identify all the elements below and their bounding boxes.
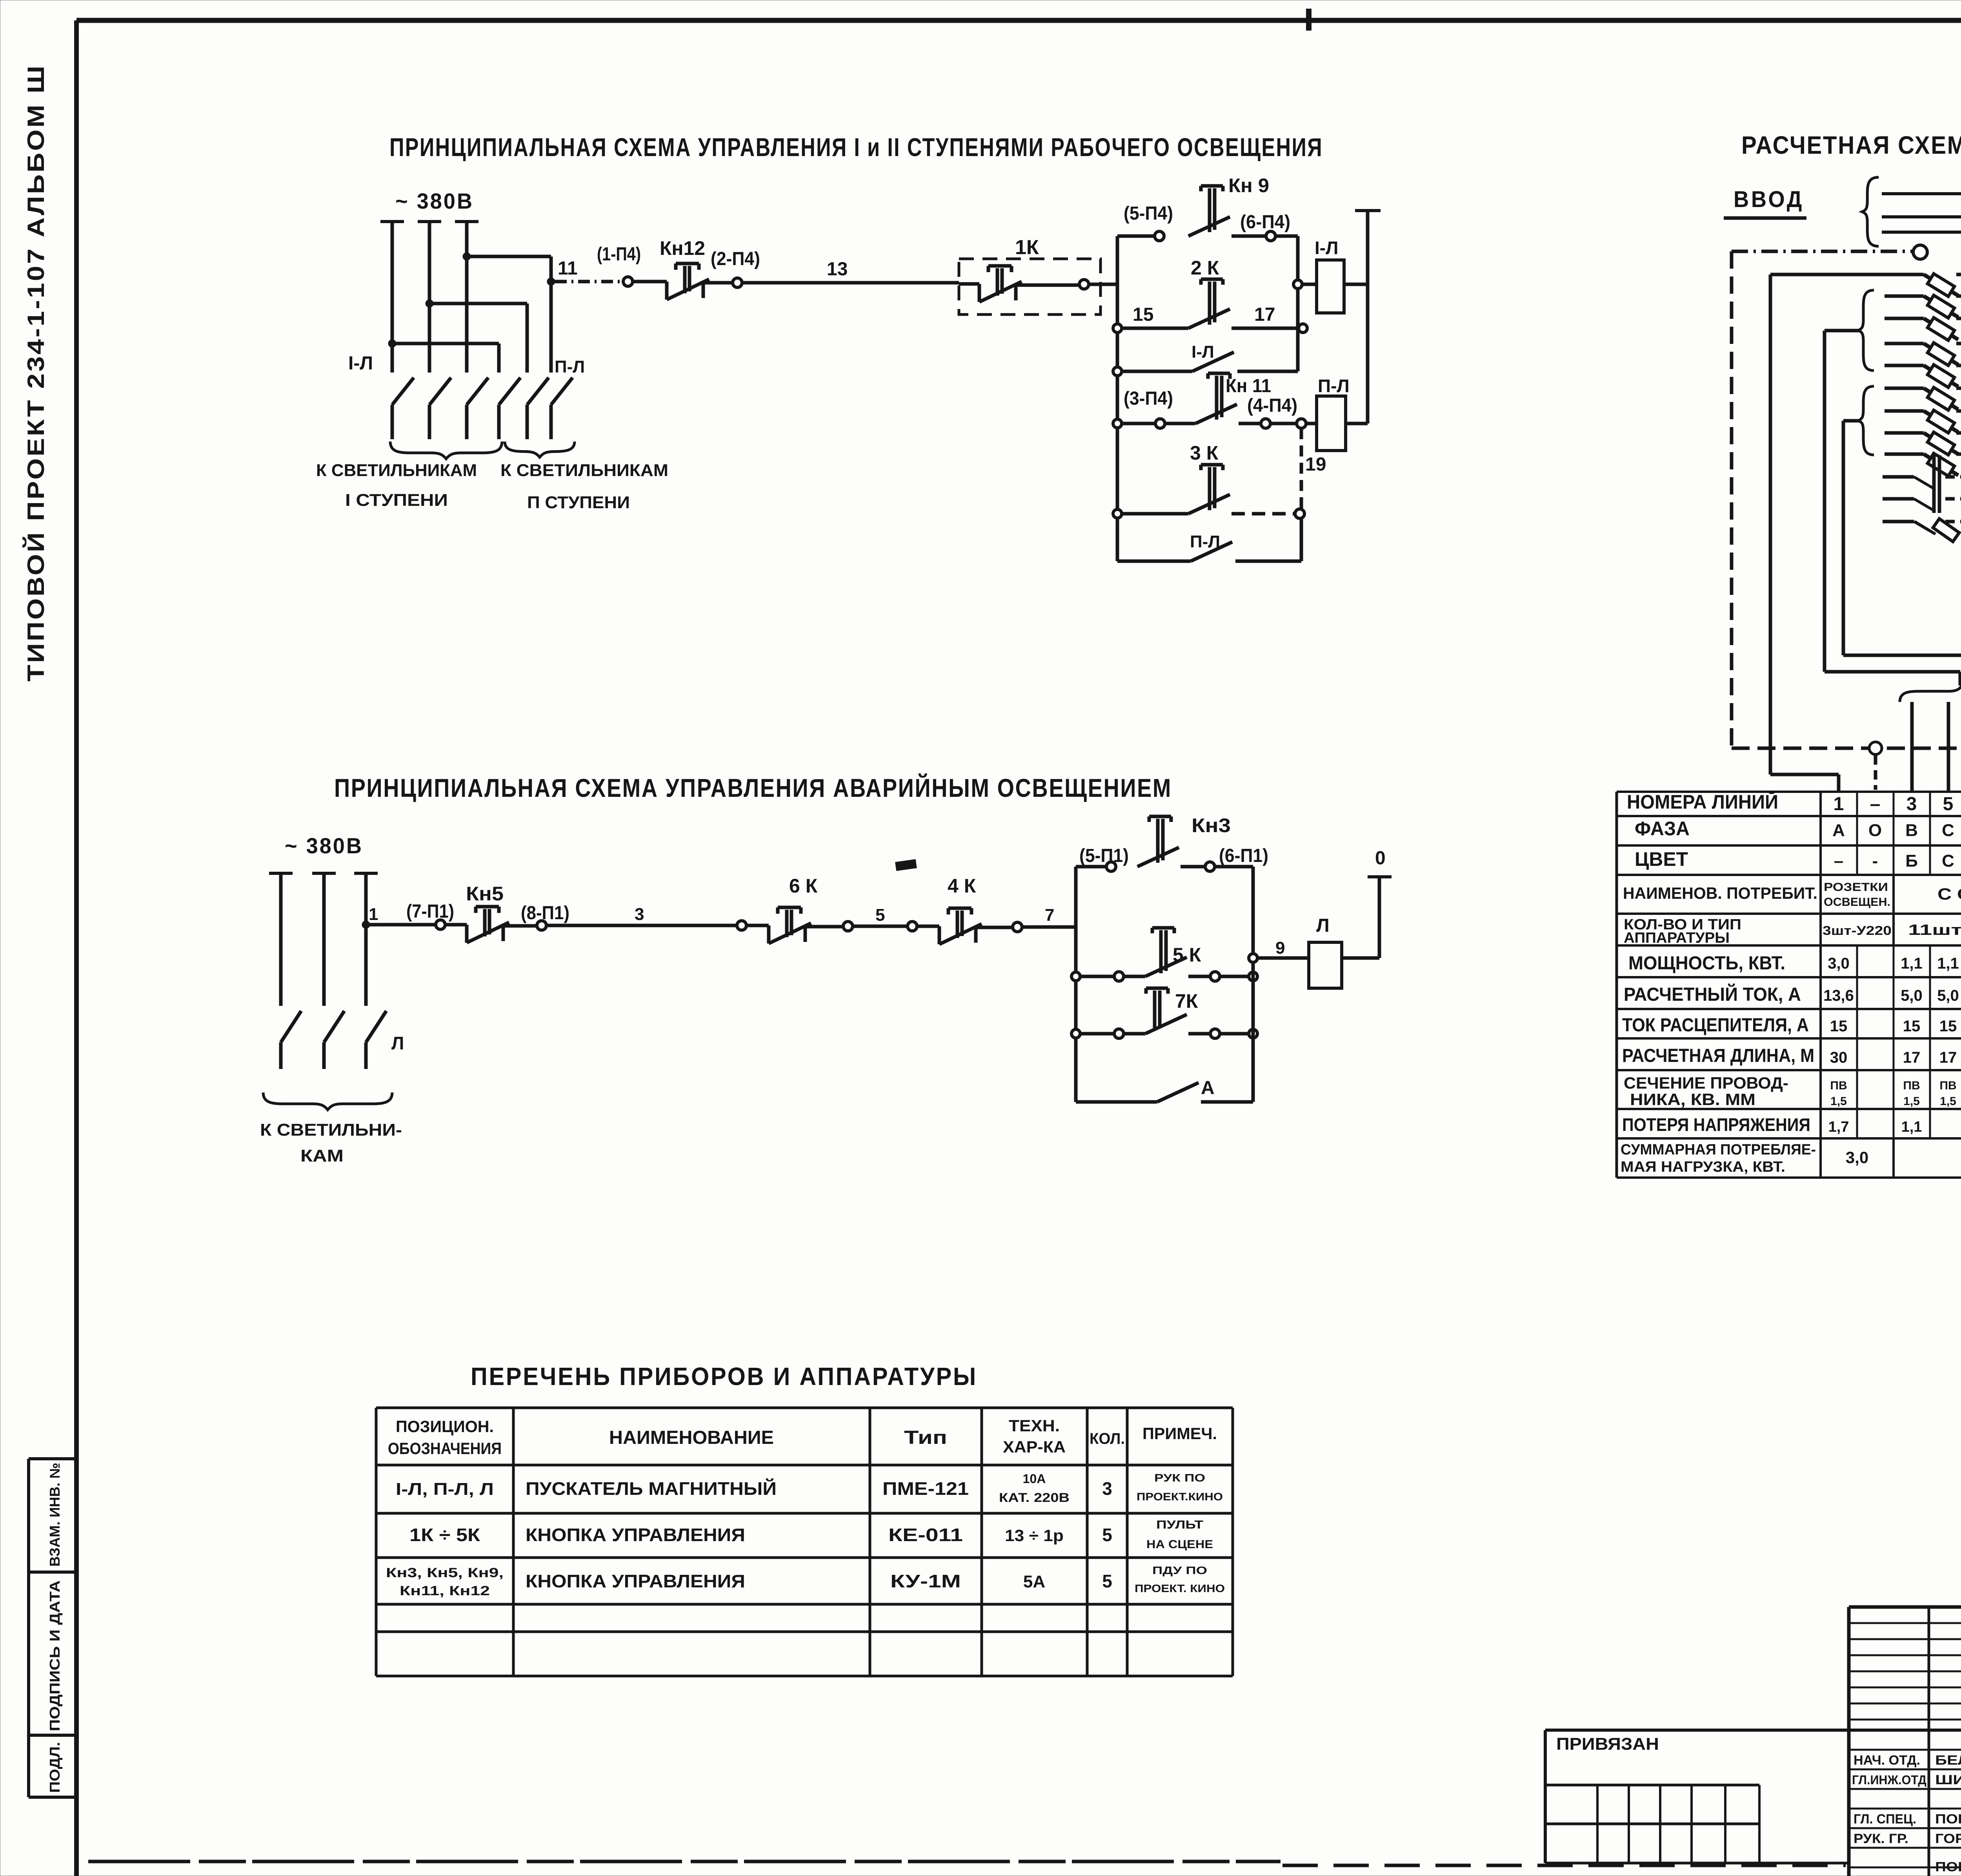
contactor main contact pole 1	[392, 378, 414, 439]
terminal circle after 6K	[843, 922, 853, 931]
terminal circle (6-P4)	[1266, 231, 1275, 241]
svg-text:РАСЧЕТНЫЙ ТОК, А: РАСЧЕТНЫЙ ТОК, А	[1624, 983, 1801, 1005]
wire to I-L aux contact	[1122, 370, 1192, 373]
svg-text:Кн11, Кн12: Кн11, Кн12	[400, 1583, 490, 1598]
terminal circle in box 1K	[1079, 280, 1089, 289]
terminal circle after Kn12	[703, 281, 733, 285]
svg-text:ПДУ ПО: ПДУ ПО	[1152, 1564, 1207, 1576]
wire to Kn5	[445, 923, 467, 927]
svg-text:17: 17	[1254, 304, 1275, 325]
circuit row 9 / 10	[1885, 364, 1924, 367]
contactor main contact pole 4	[499, 378, 520, 439]
contactor L pole 1	[281, 1011, 301, 1069]
junction node on L3	[463, 253, 471, 260]
svg-text:Л: Л	[1316, 915, 1330, 936]
title block thin rows	[1849, 1622, 1961, 1624]
junction I-L aux branch	[1113, 367, 1122, 376]
neutral rail right	[1355, 209, 1381, 212]
frame: sheet border left	[74, 20, 79, 1876]
svg-text:К СВЕТИЛЬНИКАМ: К СВЕТИЛЬНИКАМ	[500, 461, 668, 480]
terminal circle (7-P1)	[436, 920, 445, 929]
svg-text:1,1: 1,1	[1901, 955, 1923, 972]
wire from box to left bus	[1089, 283, 1117, 286]
junction to coil I-L	[1293, 280, 1302, 289]
aux contact II-L	[1191, 542, 1232, 561]
svg-text:13: 13	[827, 259, 848, 280]
svg-text:(6-П1): (6-П1)	[1219, 845, 1268, 866]
terminal circle (5-P1)	[1106, 862, 1116, 871]
svg-text:(6-П4): (6-П4)	[1240, 212, 1290, 233]
contactor L pole 3	[366, 1011, 386, 1069]
circuit row 15 / 16	[1885, 431, 1924, 435]
circuit row spare / spare	[1883, 475, 1914, 479]
svg-text:1,1: 1,1	[1901, 1119, 1922, 1135]
svg-text:ХАР-КА: ХАР-КА	[1003, 1438, 1066, 1456]
svg-text:1,5: 1,5	[1940, 1095, 1956, 1108]
neutral riser dashed	[1730, 251, 1734, 748]
svg-text:15: 15	[1903, 1018, 1921, 1035]
svg-text:(7-П1): (7-П1)	[406, 901, 454, 922]
wire tap from L2	[429, 302, 527, 305]
wire to (6-P1)	[1181, 865, 1205, 869]
wire 7	[976, 926, 1013, 929]
svg-text:ПОДПИСЬ И ДАТА: ПОДПИСЬ И ДАТА	[47, 1580, 63, 1731]
phase bus 2 schematic 2	[312, 872, 336, 875]
junction node on L1	[388, 340, 396, 347]
push button 3K contact blade	[1188, 494, 1230, 514]
svg-text:5: 5	[875, 905, 885, 925]
svg-text:3: 3	[1102, 1478, 1112, 1499]
svg-text:Б: Б	[1905, 851, 1918, 871]
line 1 feed loop	[1769, 274, 1772, 774]
contactor L pole 2	[324, 1011, 344, 1069]
svg-text:АППАРАТУРЫ: АППАРАТУРЫ	[1624, 930, 1730, 946]
terminal circle (3-P4)	[1155, 419, 1165, 428]
svg-text:П-Л: П-Л	[555, 357, 585, 376]
coil L	[1309, 942, 1342, 988]
svg-text:(4-П4): (4-П4)	[1247, 395, 1297, 416]
svg-text:–: –	[1870, 794, 1881, 814]
svg-text:7К: 7К	[1175, 990, 1198, 1012]
svg-text:I-Л, П-Л, Л: I-Л, П-Л, Л	[396, 1480, 494, 1499]
feeder phase C	[1882, 231, 1961, 234]
privyazan band left	[1544, 1730, 1547, 1863]
svg-text:В: В	[1905, 821, 1918, 840]
svg-text:ПРОЕКТ.КИНО: ПРОЕКТ.КИНО	[1137, 1491, 1223, 1503]
push button 7K contact blade	[1145, 1014, 1187, 1034]
equipment table grid	[376, 1407, 1233, 1409]
svg-text:Кн12: Кн12	[660, 237, 705, 259]
svg-text:Тип: Тип	[904, 1427, 947, 1448]
svg-text:3,0: 3,0	[1846, 1148, 1868, 1167]
terminal circle 2K right	[1299, 324, 1307, 333]
svg-text:ПОДЛ.: ПОДЛ.	[47, 1742, 63, 1793]
junction circle before coil II-L	[1297, 419, 1306, 428]
push button Kn3 contact blade	[1137, 847, 1179, 867]
terminal circle (8-P1)	[537, 921, 546, 930]
svg-text:Кн 9: Кн 9	[1228, 175, 1269, 196]
wire to button Kn12	[633, 280, 667, 284]
svg-text:19: 19	[1305, 454, 1326, 475]
svg-text:6 К: 6 К	[789, 875, 818, 897]
svg-text:11: 11	[558, 258, 578, 279]
dashed enclosure box 1K	[959, 259, 1101, 314]
phase bus L2	[418, 220, 441, 223]
svg-text:2 К: 2 К	[1191, 257, 1219, 279]
circuit row 17 / 18	[1885, 453, 1924, 456]
svg-text:ФАЗА: ФАЗА	[1635, 818, 1690, 840]
svg-text:ПЕРЕЧЕНЬ ПРИБОРОВ И АППА: ПЕРЕЧЕНЬ ПРИБОРОВ И АППАРАТУРЫ	[471, 1362, 977, 1391]
wire 15	[1122, 327, 1188, 330]
svg-text:Л: Л	[391, 1033, 404, 1053]
svg-text:СЕЧЕНИЕ ПРОВОД-: СЕЧЕНИЕ ПРОВОД-	[1624, 1074, 1788, 1092]
drop wire line 4968	[1947, 702, 1950, 792]
contactor main contact pole 3	[467, 378, 488, 439]
brace group stage I lamps	[390, 442, 502, 459]
svg-text:ТОК РАСЦЕПИТЕЛЯ, А: ТОК РАСЦЕПИТЕЛЯ, А	[1622, 1015, 1809, 1036]
svg-text:Кн5: Кн5	[466, 883, 504, 905]
phase bus L3	[455, 220, 478, 223]
right rail group 2	[1252, 867, 1255, 1102]
wire to (6-P4)	[1232, 234, 1266, 238]
svg-text:А: А	[1832, 821, 1845, 840]
push button Kn11 contact blade	[1195, 404, 1237, 424]
circuit row spare / spare	[1883, 520, 1914, 524]
svg-text:5: 5	[1102, 1571, 1112, 1591]
left rail group 2	[1074, 867, 1078, 1102]
svg-text:Кн 11: Кн 11	[1226, 376, 1271, 396]
svg-text:1,5: 1,5	[1903, 1095, 1920, 1108]
phase bus 3 schematic 2	[354, 872, 378, 875]
svg-text:КУ-1М: КУ-1М	[890, 1571, 961, 1591]
circuit row 11 / 12	[1885, 387, 1924, 390]
svg-text:РАСЧЕТНАЯ ДЛИНА, М: РАСЧЕТНАЯ ДЛИНА, М	[1622, 1045, 1814, 1066]
dashed link down from (4-P4)	[1300, 428, 1303, 509]
svg-text:К СВЕТИЛЬНИ-: К СВЕТИЛЬНИ-	[260, 1120, 402, 1140]
svg-text:1: 1	[369, 905, 378, 924]
wire 13	[742, 281, 959, 285]
svg-text:ПОПОВА: ПОПОВА	[1935, 1860, 1961, 1874]
svg-text:ПВ: ПВ	[1830, 1079, 1847, 1092]
push button Kn9 contact blade	[1188, 217, 1230, 236]
wire 5	[805, 925, 843, 929]
brace group stage II lamps	[505, 442, 575, 457]
brace lines 3-9	[1858, 290, 1874, 371]
svg-text:КОЛ.: КОЛ.	[1090, 1430, 1125, 1447]
terminal circle 7K a	[1114, 1029, 1124, 1038]
privyazan band top	[1545, 1729, 1961, 1732]
svg-text:НАИМЕНОВ. ПОТРЕБИТ.: НАИМЕНОВ. ПОТРЕБИТ.	[1623, 884, 1817, 902]
svg-text:ПОТЕРЯ НАПРЯЖЕНИЯ: ПОТЕРЯ НАПРЯЖЕНИЯ	[1622, 1114, 1810, 1135]
terminal circle 3K right	[1295, 509, 1304, 518]
ink blob artifact	[895, 859, 917, 871]
svg-text:I-Л: I-Л	[348, 353, 373, 374]
svg-text:Кн3: Кн3	[1192, 814, 1231, 836]
svg-text:1К ÷ 5К: 1К ÷ 5К	[409, 1525, 480, 1545]
svg-text:ПМЕ-121: ПМЕ-121	[882, 1478, 969, 1499]
dashed wire 3K right	[1232, 512, 1294, 516]
svg-text:РОЗЕТКИ: РОЗЕТКИ	[1824, 881, 1888, 894]
circuit row 7 / 8	[1885, 342, 1924, 345]
svg-text:5,0: 5,0	[1901, 987, 1923, 1004]
svg-text:КНОПКА УПРАВЛЕНИЯ: КНОПКА УПРАВЛЕНИЯ	[526, 1525, 745, 1545]
svg-text:1,5: 1,5	[1830, 1095, 1847, 1108]
wire coil I-L to neutral rail	[1344, 283, 1368, 286]
terminal circle 7K b	[1188, 1032, 1210, 1036]
circuit row 3 / 4	[1885, 294, 1924, 298]
svg-text:П-Л: П-Л	[1318, 376, 1350, 396]
svg-text:П СТУПЕНИ: П СТУПЕНИ	[527, 493, 630, 512]
svg-text:17: 17	[1939, 1049, 1957, 1066]
wire to (5-P1)	[1076, 865, 1106, 869]
contact A	[1157, 1083, 1199, 1102]
2K plunger	[1201, 279, 1223, 325]
svg-text:1,7: 1,7	[1828, 1119, 1849, 1135]
svg-text:5: 5	[1102, 1525, 1112, 1545]
svg-text:ПОЗИЦИОН.: ПОЗИЦИОН.	[396, 1417, 494, 1436]
svg-text:3,0: 3,0	[1828, 955, 1850, 972]
svg-text:(8-П1): (8-П1)	[521, 903, 569, 923]
wire tap from L3	[467, 255, 551, 258]
wire I-L aux to right rail	[1237, 370, 1298, 373]
junction on phase 3	[362, 921, 370, 929]
svg-text:(5-П4): (5-П4)	[1124, 203, 1173, 224]
brace lines 11-17	[1858, 386, 1874, 455]
svg-text:4 К: 4 К	[948, 875, 976, 897]
wire dash-dot to terminal (1-P4)	[555, 280, 623, 284]
load table grid	[1617, 791, 1961, 793]
svg-text:~ 380В: ~ 380В	[285, 833, 363, 858]
junction to coil L	[1249, 954, 1257, 962]
junction node on L2	[426, 300, 433, 307]
terminal circle after 4K	[1013, 922, 1022, 932]
wire 3	[546, 924, 737, 927]
bottom brace sofit 1	[1900, 684, 1961, 702]
feeder phase B	[1882, 215, 1961, 218]
svg-text:С: С	[1942, 851, 1954, 871]
svg-text:(5-П1): (5-П1)	[1079, 845, 1129, 866]
wire tap from L1	[392, 342, 499, 345]
title block outline	[1849, 1605, 1961, 1609]
svg-text:(1-П4): (1-П4)	[597, 244, 641, 265]
svg-text:5А: 5А	[1023, 1572, 1045, 1591]
junction Kn11 branch	[1113, 419, 1122, 428]
terminal circle 5K b	[1188, 975, 1210, 978]
svg-text:ПРИМЕЧ.: ПРИМЕЧ.	[1142, 1424, 1217, 1443]
coil II-L	[1317, 396, 1346, 451]
Kn9 plunger	[1201, 186, 1223, 232]
left margin: label podpis i data	[47, 1580, 63, 1731]
svg-text:15: 15	[1830, 1018, 1848, 1035]
feeder phase A	[1882, 192, 1961, 195]
svg-text:30: 30	[1830, 1049, 1848, 1066]
svg-text:О: О	[1868, 821, 1882, 840]
junction 2K branch	[1113, 324, 1122, 333]
node tap for control wire 11	[547, 278, 555, 285]
title block signature rows	[1849, 1729, 1961, 1731]
spare group left end fuse	[1933, 519, 1959, 542]
terminal circle 5K a	[1114, 972, 1124, 981]
aux contact I-L	[1192, 352, 1234, 371]
contactor main contact pole 2	[429, 378, 451, 439]
svg-text:-: -	[1872, 851, 1878, 871]
svg-text:I-Л: I-Л	[1192, 342, 1214, 362]
brace lamps emergency	[263, 1093, 392, 1110]
svg-text:П-Л: П-Л	[1190, 532, 1220, 551]
svg-text:7: 7	[1045, 905, 1054, 925]
wire coil L to neutral	[1342, 956, 1379, 960]
svg-text:3: 3	[1906, 794, 1917, 814]
svg-text:КНОПКА УПРАВЛЕНИЯ: КНОПКА УПРАВЛЕНИЯ	[526, 1571, 745, 1591]
push button 4K	[938, 926, 941, 944]
svg-text:ПРИНЦИПИАЛЬНАЯ СХЕМА УПРАВ: ПРИНЦИПИАЛЬНАЯ СХЕМА УПРАВЛЕНИЯ АВАРИЙНЫ…	[334, 773, 1172, 802]
svg-text:ПВ: ПВ	[1939, 1079, 1956, 1092]
junction 5K branch left	[1071, 972, 1080, 981]
svg-text:РАСЧЕТНАЯ СХЕМА ЩИТА ОСВ: РАСЧЕТНАЯ СХЕМА ЩИТА ОСВЕЩЕНИЯ ЭСТРАДЫ	[1741, 131, 1961, 159]
junction 5K branch right	[1249, 972, 1257, 981]
svg-text:Кн3, Кн5, Кн9,: Кн3, Кн5, Кн9,	[386, 1565, 504, 1580]
svg-text:13,6: 13,6	[1823, 987, 1854, 1004]
revision mini table	[1545, 1784, 1759, 1787]
svg-text:1,1: 1,1	[1937, 955, 1959, 972]
coil I-L wire	[1302, 283, 1317, 286]
terminal circle (1-P4)	[623, 277, 633, 286]
input terminal circle	[1913, 245, 1927, 259]
svg-text:ОБОЗНАЧЕНИЯ: ОБОЗНАЧЕНИЯ	[388, 1439, 502, 1458]
svg-text:13 ÷ 1р: 13 ÷ 1р	[1005, 1526, 1064, 1545]
svg-text:ОСВЕЩЕН.: ОСВЕЩЕН.	[1824, 896, 1890, 909]
wire A branch	[1076, 1100, 1157, 1104]
svg-text:СУММАРНАЯ ПОТРЕБЛЯЕ-: СУММАРНАЯ ПОТРЕБЛЯЕ-	[1621, 1142, 1816, 1158]
svg-text:ГОРДЕЕВ: ГОРДЕЕВ	[1935, 1831, 1961, 1846]
wire 17	[1232, 327, 1298, 330]
svg-text:I-Л: I-Л	[1315, 238, 1338, 258]
svg-text:ЦВЕТ: ЦВЕТ	[1635, 848, 1688, 870]
push button Kn12	[665, 282, 669, 300]
junction 7K branch left	[1071, 1029, 1080, 1038]
circuit row 1 / 2	[1770, 273, 1924, 276]
left margin: vertical album text	[23, 64, 49, 682]
frame: top middle tick	[1306, 9, 1312, 31]
svg-text:5: 5	[1943, 794, 1954, 814]
svg-text:9: 9	[1275, 938, 1285, 958]
push button Kn5	[465, 925, 469, 943]
push button 1K inside box	[959, 282, 979, 286]
svg-text:НОМЕРА ЛИНИЙ: НОМЕРА ЛИНИЙ	[1627, 791, 1778, 813]
terminal circle (4-P4)	[1261, 419, 1270, 428]
svg-text:11шт - РСП-4к: 11шт - РСП-4к	[1908, 922, 1961, 938]
svg-text:ГЛ.ИНЖ.ОТД: ГЛ.ИНЖ.ОТД	[1852, 1773, 1926, 1787]
5K plunger	[1152, 928, 1174, 973]
svg-text:3шт-У220: 3шт-У220	[1823, 923, 1892, 938]
circuit row 19 / 20	[1883, 497, 1914, 501]
7K plunger	[1146, 988, 1168, 1031]
svg-text:ВВОД: ВВОД	[1734, 187, 1804, 212]
svg-text:ПУСКАТЕЛЬ МАГНИТНЫЙ: ПУСКАТЕЛЬ МАГНИТНЫЙ	[526, 1478, 777, 1499]
svg-text:ПРИВЯЗАН: ПРИВЯЗАН	[1556, 1734, 1659, 1754]
svg-text:КАМ: КАМ	[300, 1146, 344, 1165]
junction 7K branch right	[1249, 1029, 1257, 1038]
wire II-L aux right and up	[1235, 560, 1301, 563]
svg-text:3 К: 3 К	[1190, 442, 1219, 464]
svg-text:А: А	[1201, 1078, 1215, 1098]
svg-text:ГЛ. СПЕЦ.: ГЛ. СПЕЦ.	[1854, 1812, 1916, 1827]
left margin: label podl	[47, 1742, 63, 1793]
svg-text:1К: 1К	[1015, 236, 1039, 259]
push button 2K contact blade	[1188, 309, 1230, 328]
Kn11 plunger	[1208, 373, 1230, 420]
svg-text:3: 3	[635, 905, 644, 924]
svg-text:5 К: 5 К	[1173, 944, 1201, 966]
svg-text:РУК ПО: РУК ПО	[1154, 1472, 1205, 1484]
neutral terminal circle 4782	[1869, 742, 1882, 754]
svg-text:НА СЦЕНЕ: НА СЦЕНЕ	[1146, 1538, 1213, 1551]
push button 6K	[767, 925, 771, 943]
svg-text:ТИПОВОЙ ПРОЕКТ 234-1-107 АЛ: ТИПОВОЙ ПРОЕКТ 234-1-107 АЛЬБОМ Ш	[23, 64, 49, 682]
wire II-L aux branch	[1117, 560, 1191, 563]
phase bus 1 schematic 2	[269, 872, 293, 875]
svg-text:ШИН: ШИН	[1935, 1772, 1961, 1787]
terminal circle (6-P1)	[1205, 862, 1215, 871]
svg-text:ПВ: ПВ	[1903, 1079, 1920, 1092]
coil I-L	[1317, 260, 1344, 313]
svg-text:15: 15	[1133, 304, 1153, 325]
frame: sheet border top	[76, 18, 1961, 23]
svg-text:НАЧ. ОТД.: НАЧ. ОТД.	[1854, 1753, 1920, 1768]
svg-text:С: С	[1942, 821, 1954, 840]
svg-text:0: 0	[1375, 848, 1386, 869]
wire to (8-P1)	[503, 924, 537, 928]
contactor main contact pole 5	[527, 378, 549, 439]
svg-text:НАИМЕНОВАНИЕ: НАИМЕНОВАНИЕ	[609, 1427, 774, 1448]
terminal circle before 4K	[908, 922, 917, 931]
title block column lines	[1928, 1607, 1930, 1876]
svg-text:ВЗАМ. ИНВ. №: ВЗАМ. ИНВ. №	[47, 1463, 63, 1567]
wire coil II-L to neutral rail	[1346, 422, 1368, 425]
left rail of button group	[1116, 236, 1119, 561]
wire to (7-P1)	[366, 923, 436, 927]
svg-text:ТЕХН.: ТЕХН.	[1009, 1416, 1060, 1435]
svg-text:МАЯ НАГРУЗКА, КВТ.: МАЯ НАГРУЗКА, КВТ.	[1621, 1159, 1785, 1175]
svg-text:I СТУПЕНИ: I СТУПЕНИ	[345, 491, 448, 510]
left margin: stamp boxes	[29, 1457, 76, 1460]
spare group left double riser	[1932, 455, 1936, 513]
svg-text:–: –	[1834, 851, 1843, 871]
svg-text:17: 17	[1903, 1049, 1921, 1066]
svg-text:(2-П4): (2-П4)	[711, 249, 760, 269]
circuit row 5 / 6	[1885, 317, 1924, 320]
svg-text:10А: 10А	[1023, 1472, 1046, 1486]
svg-text:1: 1	[1834, 794, 1844, 814]
svg-text:С О Ф И Т: С О Ф И Т	[1937, 885, 1961, 903]
svg-text:К СВЕТИЛЬНИКАМ: К СВЕТИЛЬНИКАМ	[316, 461, 477, 480]
neutral dash-dot wire	[1732, 250, 1912, 253]
svg-text:КАТ. 220В: КАТ. 220В	[999, 1491, 1070, 1505]
svg-text:15: 15	[1939, 1018, 1957, 1035]
left margin: label vzam inv	[47, 1463, 63, 1567]
phase bus L1	[380, 220, 404, 223]
contactor main contact pole 6	[551, 378, 573, 439]
svg-text:(3-П4): (3-П4)	[1124, 388, 1173, 409]
junction 3K branch	[1113, 509, 1122, 518]
svg-text:МОЩНОСТЬ, КВТ.: МОЩНОСТЬ, КВТ.	[1628, 953, 1785, 974]
Kn3 plunger	[1149, 816, 1171, 863]
svg-text:~ 380В: ~ 380В	[395, 189, 474, 213]
3K plunger	[1201, 465, 1223, 510]
circuit row 13 / 14	[1885, 409, 1924, 413]
svg-text:ПОПОВА: ПОПОВА	[1935, 1812, 1961, 1827]
svg-text:5,0: 5,0	[1937, 987, 1959, 1004]
